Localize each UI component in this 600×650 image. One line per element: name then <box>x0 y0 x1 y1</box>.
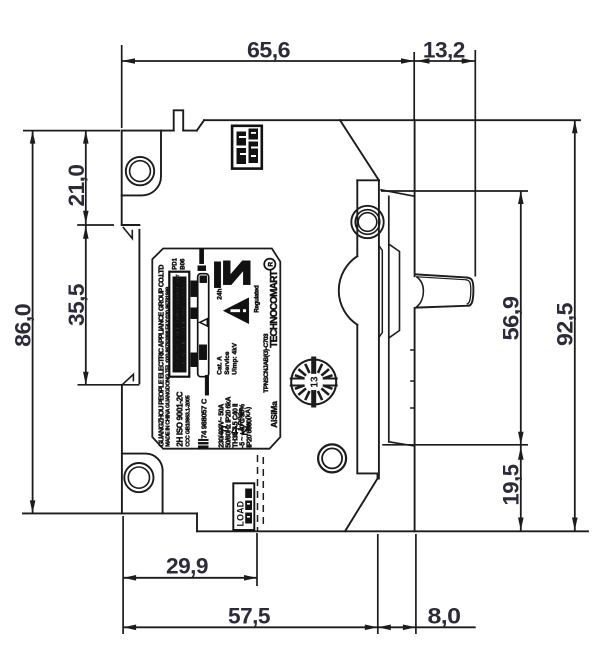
ext 56.9/19.5 middle <box>382 444 528 446</box>
dim line 29.9 <box>123 577 257 579</box>
arrow 13.2 right <box>462 58 475 64</box>
front strip right edge <box>378 180 380 478</box>
upper-right rivet outer <box>351 206 383 238</box>
arrow 29.9 left <box>123 575 136 581</box>
bezel right edge with chamfers <box>389 244 400 338</box>
svg-text:21,0: 21,0 <box>64 164 89 206</box>
svg-text:35,5: 35,5 <box>64 284 89 326</box>
certification wheel <box>290 357 338 408</box>
bottom edge left section <box>23 512 197 514</box>
ext 35.5 bottom <box>78 384 140 386</box>
col4: big symbol <box>214 262 221 288</box>
top-left rivet inner <box>130 161 151 182</box>
top chamfer diagonal <box>340 120 379 180</box>
arrow 56.9 bottom <box>518 432 524 445</box>
dim line 21.0/35.5 <box>85 131 87 385</box>
arrow 56.9 top <box>518 191 524 204</box>
svg-text:GUANGZHOU PEOPLE ELECTRIC APPL: GUANGZHOU PEOPLE ELECTRIC APPLIANCE GROU… <box>158 265 165 447</box>
svg-text:86,0: 86,0 <box>11 304 36 347</box>
arrow 65.6 left <box>122 58 135 64</box>
dimension extension lines <box>23 45 528 634</box>
DIN top notch barb <box>123 228 132 239</box>
lower-right rivet inner <box>322 448 342 468</box>
ext 13.2 left <box>413 52 415 120</box>
bottom edge right section + extension <box>197 530 588 532</box>
front strip top edge <box>357 179 379 181</box>
left lower edge <box>121 385 123 514</box>
boss arc <box>339 256 358 325</box>
ext 29.9 right <box>256 533 258 586</box>
rear block left edge <box>388 196 390 441</box>
LOAD box <box>233 483 254 530</box>
arrow 8.0 left <box>378 625 391 631</box>
svg-text:GUANGZHOU CHINA POST 510470: GUANGZHOU CHINA POST 510470 <box>181 284 187 368</box>
svg-text:29,9: 29,9 <box>166 554 208 579</box>
arrow 21.0 bottom <box>83 211 89 224</box>
svg-text:TECHNOCOMART: TECHNOCOMART <box>269 271 280 348</box>
dim line 57.5/8.0 <box>123 626 476 628</box>
handle base arc <box>417 277 424 307</box>
svg-text:74 988057 C: 74 988057 C <box>199 398 208 439</box>
handle top edge <box>416 274 467 277</box>
svg-text:CCC GB10963.1-2005: CCC GB10963.1-2005 <box>185 395 191 446</box>
rear face ticks <box>411 350 415 408</box>
bottom step <box>196 513 198 531</box>
device top edge left section <box>122 130 197 132</box>
handle cap shading <box>466 280 471 304</box>
dim line 56.9/19.5 <box>520 191 522 531</box>
col3 black blobs left of window <box>191 281 198 297</box>
arrow 21.0 top <box>83 131 89 144</box>
DIN recess edge <box>138 230 140 383</box>
svg-text:56,9: 56,9 <box>499 296 524 340</box>
arrow 19.5 bottom <box>518 518 524 531</box>
handle right cap <box>467 278 474 306</box>
dim line 86.0 <box>32 131 34 514</box>
DIN top notch floor <box>122 224 140 226</box>
black bar above window <box>200 248 204 264</box>
svg-text:13: 13 <box>310 376 321 388</box>
svg-text:R: R <box>267 262 274 267</box>
svg-text:Service: Service <box>224 351 231 375</box>
rear block top diagonal <box>381 190 415 197</box>
svg-text:AiSiMa: AiSiMa <box>269 401 279 428</box>
window marks <box>200 276 207 283</box>
device top edge right section + 92.5 extension <box>204 119 580 121</box>
arrow 92.5 bottom <box>572 518 578 531</box>
top tab <box>174 110 184 130</box>
arrow 86.0 top <box>30 131 36 144</box>
DIN bottom notch barb <box>123 374 133 383</box>
label plate outline <box>152 249 280 449</box>
label contents (rotated frame) <box>158 248 279 449</box>
bottom chamfer diagonal <box>345 473 378 531</box>
arrow 57.5 left <box>123 625 136 631</box>
svg-text:F42: F42 <box>220 423 251 438</box>
rear face lower <box>414 308 416 531</box>
arrow 92.5 top <box>572 120 578 133</box>
arrow 86.0 bottom <box>30 500 36 513</box>
registered circle <box>264 259 275 270</box>
front strip right jog line <box>379 246 382 338</box>
lower-right rivet outer <box>318 444 346 472</box>
col2: address box black interior <box>173 277 187 373</box>
bottom-left rivet outer <box>124 463 153 492</box>
col3: white window box <box>198 274 209 377</box>
bottom-left ear <box>122 454 163 514</box>
bar below window <box>205 375 209 395</box>
svg-text:24h: 24h <box>216 288 223 299</box>
svg-text:PD1: PD1 <box>172 257 178 269</box>
ext 21/35.5 notch <box>77 224 114 226</box>
LINE black box <box>232 126 262 169</box>
top-left rivet outer <box>126 157 154 185</box>
top step diagonal <box>197 120 204 130</box>
svg-text:8,0: 8,0 <box>428 604 461 629</box>
ext 56.9 top <box>381 190 528 192</box>
arrow 8.0 right <box>403 625 416 631</box>
svg-text:2H ISO 9001-2C: 2H ISO 9001-2C <box>175 391 184 446</box>
arrow 57.5 right <box>365 625 378 631</box>
ext 86/21 top <box>23 130 120 132</box>
svg-text:ADDRESS RENHE TOWN BAIYUN DIST: ADDRESS RENHE TOWN BAIYUN DIST <box>175 274 181 369</box>
arrow 29.9 right <box>244 575 257 581</box>
dim line 92.5 <box>574 120 576 530</box>
arrow 35.5 top <box>83 226 89 239</box>
ext 8.0 right <box>415 534 417 634</box>
rear block bottom diagonal <box>389 442 415 446</box>
col2: address box border <box>169 272 189 377</box>
svg-text:B06: B06 <box>180 258 186 270</box>
upper-right rivet inner <box>358 213 377 232</box>
svg-text:Regulated: Regulated <box>253 285 260 313</box>
dashed hidden lines <box>257 455 259 531</box>
svg-text:Cat. A: Cat. A <box>216 356 223 375</box>
arrow 35.5 bottom <box>83 372 89 385</box>
arrow 13.2 left <box>417 58 430 64</box>
rear face upper <box>414 120 416 276</box>
ext 65.6 left <box>121 45 123 128</box>
arrow 19.5 top <box>518 447 524 460</box>
device top-left edge vertical <box>121 131 123 224</box>
svg-text:65,6: 65,6 <box>247 38 290 63</box>
dim line 65.6/13.2 <box>122 60 476 62</box>
svg-text:92,5: 92,5 <box>553 303 578 346</box>
arrow 65.6 right <box>401 58 414 64</box>
ext 29.9 left <box>122 516 124 634</box>
warning triangle <box>223 298 249 324</box>
upper-right rivet middle <box>355 210 380 235</box>
handle bottom edge <box>416 306 469 308</box>
svg-text:57,5: 57,5 <box>228 604 270 629</box>
front strip left edge upper <box>356 180 358 256</box>
bottom-left rivet inner <box>128 467 149 488</box>
ext 57.5/8.0 bottom left <box>377 534 379 634</box>
svg-text:LOAD: LOAD <box>236 501 246 527</box>
svg-text:13,2: 13,2 <box>423 38 465 63</box>
svg-text:19,5: 19,5 <box>499 464 524 505</box>
top-left ear right edge <box>122 131 161 196</box>
handle top shading line <box>418 277 467 280</box>
front strip left edge lower <box>357 325 377 474</box>
ext 13.2 right <box>474 50 476 277</box>
svg-text:Uimp: 4kV: Uimp: 4kV <box>231 342 238 374</box>
dimension lines <box>33 61 575 627</box>
